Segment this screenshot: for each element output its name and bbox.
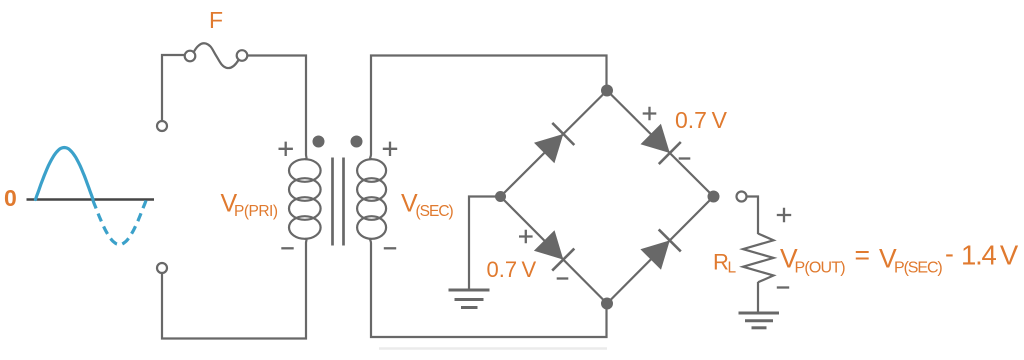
polarity - (diode D2 cathode) bbox=[679, 157, 691, 159]
wire: secondary top to bridge top node bbox=[371, 56, 607, 155]
polarity + (diode D3 anode) bbox=[519, 230, 533, 244]
faint cropped caption line at bottom bbox=[379, 347, 607, 349]
polarity - (output bottom) bbox=[777, 286, 789, 288]
wire: source bottom terminal to primary bottom bbox=[162, 243, 306, 339]
wire: source top terminal to fuse bbox=[162, 55, 185, 121]
polarity + (output top) bbox=[777, 208, 791, 222]
fuse F element (S-curve) bbox=[194, 43, 239, 68]
polarity - (primary bottom) bbox=[281, 247, 293, 249]
transformer primary winding bbox=[289, 155, 321, 244]
input waveform axis bbox=[27, 198, 155, 201]
wire: fuse to transformer primary top bbox=[247, 56, 306, 155]
wire: resistor bottom to ground bbox=[757, 282, 759, 312]
svg-text:(SEC): (SEC) bbox=[416, 203, 454, 220]
svg-text:1.4 V: 1.4 V bbox=[961, 240, 1019, 271]
diode D1 (left node to top node) bbox=[534, 123, 574, 163]
phasing dot secondary bbox=[351, 136, 363, 148]
input sine positive half (solid) bbox=[36, 148, 94, 200]
terminal: output (open circle) bbox=[737, 192, 747, 202]
svg-text:L: L bbox=[728, 260, 737, 277]
diode D4 (bottom node to right node) bbox=[640, 229, 680, 269]
polarity + (primary top) bbox=[279, 142, 293, 156]
transformer core bbox=[333, 158, 344, 246]
resistor RL bbox=[743, 234, 774, 283]
svg-text:P(OUT): P(OUT) bbox=[795, 260, 846, 277]
svg-text:-: - bbox=[945, 239, 954, 269]
wire: secondary bottom to bridge bottom node bbox=[371, 243, 607, 337]
terminal: source bottom (open circle) bbox=[157, 263, 167, 273]
wire: bridge arm bottom-left bbox=[501, 197, 608, 304]
svg-text:P(PRI): P(PRI) bbox=[234, 203, 278, 220]
label VP(PRI) bbox=[221, 190, 278, 221]
label VP(OUT) = VP(SEC) - 1.4 V equation bbox=[780, 239, 1019, 277]
svg-text:0.7 V: 0.7 V bbox=[675, 107, 728, 133]
label RL bbox=[713, 250, 737, 277]
phasing dot primary bbox=[313, 136, 325, 148]
svg-text:0: 0 bbox=[4, 185, 17, 211]
node: bridge left junction bbox=[495, 191, 506, 202]
svg-text:0.7 V: 0.7 V bbox=[487, 257, 537, 282]
terminal: source top (open circle) bbox=[157, 121, 167, 131]
svg-text:P(SEC): P(SEC) bbox=[894, 260, 942, 277]
polarity + (diode D2 anode) bbox=[643, 107, 657, 121]
polarity - (diode D3 cathode) bbox=[557, 277, 569, 279]
wire: bridge arm top-left bbox=[501, 91, 608, 197]
node: bridge right junction bbox=[708, 191, 720, 203]
wire: output terminal to load resistor bbox=[747, 197, 759, 235]
svg-text:R: R bbox=[713, 250, 729, 275]
label V(SEC) bbox=[401, 190, 454, 221]
diode D2 (top node to right node) bbox=[641, 124, 681, 164]
wire: bridge arm top-right bbox=[607, 91, 714, 197]
wire: bridge arm bottom-right bbox=[607, 197, 714, 304]
ground (bridge left) bbox=[449, 290, 490, 308]
transformer secondary winding bbox=[357, 155, 386, 244]
wire: left node to ground bbox=[469, 197, 496, 290]
node: bridge top junction bbox=[601, 85, 613, 97]
diode D3 (left node to bottom node) bbox=[534, 230, 574, 270]
polarity - (secondary bottom) bbox=[384, 247, 396, 249]
svg-text:=: = bbox=[855, 240, 870, 270]
svg-text:F: F bbox=[209, 7, 223, 33]
fuse F right terminal bbox=[237, 50, 248, 61]
node: bridge bottom junction bbox=[601, 298, 613, 310]
polarity + (secondary top) bbox=[383, 142, 397, 156]
ground (output) bbox=[739, 313, 780, 328]
input sine negative half (dashed) bbox=[93, 201, 146, 245]
fuse F left terminal bbox=[185, 51, 196, 62]
